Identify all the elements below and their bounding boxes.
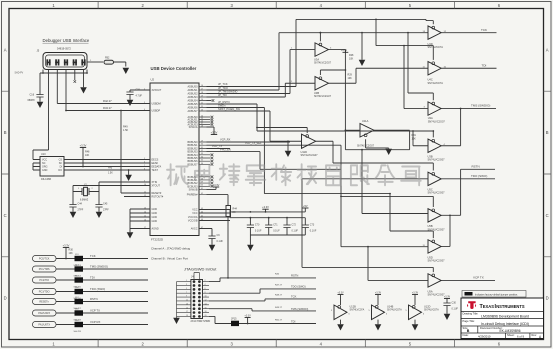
- op-amp U11D: [301, 134, 319, 157]
- wire ADBUS6 long: [207, 108, 391, 194]
- label RSTN: [472, 165, 480, 169]
- wire U5A in: [368, 247, 428, 281]
- wire J4 TCK: [209, 299, 316, 301]
- wire U5B in: [361, 149, 428, 214]
- ground U12D: [412, 324, 419, 331]
- wire RSTOUT#: [124, 196, 150, 198]
- label TCK: [90, 254, 96, 258]
- svg-text:32: 32: [201, 150, 203, 152]
- svg-text:LM3S9B96 Development Board: LM3S9B96 Development Board: [481, 315, 529, 319]
- svg-text:TDO (SWO): TDO (SWO): [90, 287, 105, 291]
- wire second run: [279, 32, 428, 34]
- label SHLD-PV: [15, 73, 24, 75]
- svg-text:0.1UF: 0.1UF: [292, 230, 299, 233]
- svg-text:16: 16: [205, 307, 207, 309]
- jumper J14: [74, 264, 84, 277]
- label TDI at J4: [275, 319, 296, 323]
- resistor R48 pullup: [83, 148, 90, 167]
- svg-text:41: 41: [201, 188, 203, 190]
- svg-text:8: 8: [205, 292, 206, 294]
- wire U4D enable: [426, 19, 433, 24]
- svg-text:13: 13: [186, 303, 188, 305]
- wire BDBUS2 stub: [207, 144, 231, 148]
- capacitor C44: [69, 203, 83, 212]
- section title USB Device Controller: [151, 66, 197, 71]
- svg-text:VCP TX: VCP TX: [473, 276, 484, 280]
- svg-text:1: 1: [186, 280, 187, 282]
- node PC0/TCK: [33, 256, 57, 262]
- svg-text:30: 30: [201, 144, 203, 146]
- svg-text:17: 17: [186, 311, 188, 313]
- svg-text:680PF: 680PF: [28, 99, 36, 102]
- svg-text:3V3OUT: 3V3OUT: [152, 89, 162, 92]
- svg-text:SN74LVC07A: SN74LVC07A: [350, 309, 365, 312]
- svg-text:27PF: 27PF: [103, 209, 109, 212]
- svg-text:10K: 10K: [69, 252, 74, 255]
- wire crystal right: [89, 182, 99, 205]
- IC U2 left pin stubs and labels: [143, 88, 164, 230]
- no-connect J5 pin4: [74, 70, 77, 83]
- svg-text:38: 38: [201, 178, 203, 180]
- IC U2 body: [150, 78, 199, 236]
- wire J5 shield: [40, 70, 88, 94]
- svg-text:VCC: VCC: [192, 212, 197, 215]
- svg-text:TMS (SWDIO): TMS (SWDIO): [471, 104, 490, 108]
- watermark text: [167, 164, 421, 185]
- svg-text:0.1UF: 0.1UF: [255, 230, 262, 233]
- svg-text:Channel B : Virtual Com Port: Channel B : Virtual Com Port: [151, 257, 188, 261]
- svg-text:VCP_RX: VCP_RX: [220, 138, 231, 142]
- jumper J16: [74, 287, 84, 300]
- svg-text:2X10 HDR SHRD: 2X10 HDR SHRD: [191, 320, 211, 323]
- svg-text:TMS (SWDIO): TMS (SWDIO): [291, 307, 308, 311]
- svg-text:18: 18: [205, 311, 207, 313]
- op-amp U3A mid: [314, 43, 332, 65]
- svg-text:SN74LVC2G07: SN74LVC2G07: [428, 120, 446, 123]
- svg-text:JP_RSTN: JP_RSTN: [218, 100, 230, 104]
- note Channel B: [151, 257, 188, 261]
- svg-text:+5V: +5V: [303, 204, 308, 208]
- svg-text:+3.3V: +3.3V: [63, 243, 70, 247]
- svg-text:SN74LVC2G07: SN74LVC2G07: [428, 159, 446, 162]
- jumper J18: [74, 308, 84, 321]
- wire TMS out: [441, 104, 496, 110]
- svg-text:RSTN: RSTN: [291, 274, 298, 278]
- svg-text:JP_TCK: JP_TCK: [218, 82, 228, 86]
- svg-text:10: 10: [205, 296, 207, 298]
- svg-text:+3.3V: +3.3V: [444, 295, 451, 298]
- label RSTN: [90, 297, 98, 301]
- resistor R28 pulldown: [349, 33, 362, 61]
- svg-text:B: B: [546, 130, 549, 135]
- wire U5B enable: [341, 196, 433, 207]
- no-connect ACBUS0-3: [207, 116, 214, 126]
- note Channel A: [151, 247, 191, 251]
- wire U12D tie: [414, 320, 416, 324]
- label JP RSTN: [218, 100, 230, 104]
- wire U3B out: [329, 68, 429, 83]
- svg-text:SN74LVC2G07: SN74LVC2G07: [314, 61, 332, 64]
- connector J4 2x10 header: [191, 276, 211, 323]
- resistor R43 label: [103, 106, 112, 110]
- svg-text:3: 3: [144, 102, 145, 104]
- wire USBDP junction: [65, 110, 67, 112]
- wire U10 to U2 TEST: [64, 168, 150, 175]
- svg-text:PC0/TCK: PC0/TCK: [39, 258, 50, 261]
- svg-text:A: A: [4, 47, 7, 52]
- svg-text:10K: 10K: [85, 154, 90, 157]
- svg-text:TEST: TEST: [152, 169, 159, 172]
- no-connect BDBUS4-7: [207, 154, 214, 166]
- wire XTIN: [99, 181, 150, 183]
- svg-text:Indicates factory-default jump: Indicates factory-default jumper positio…: [475, 293, 518, 296]
- op-amp U14B spare: [369, 305, 403, 320]
- svg-text:GND: GND: [152, 216, 158, 219]
- op-amp U5A: [428, 274, 446, 297]
- svg-text:JP15: JP15: [231, 318, 237, 321]
- svg-text:0.1UF: 0.1UF: [452, 308, 459, 311]
- jumper J19: [74, 320, 84, 333]
- wire J4 TDO: [209, 289, 316, 293]
- wire J4 top stubs: [194, 273, 199, 280]
- wire U3A enable: [320, 32, 322, 42]
- svg-text:TMS (SWDIO): TMS (SWDIO): [90, 265, 108, 269]
- svg-text:1.5K: 1.5K: [123, 129, 128, 132]
- power +3.3V R30: [63, 243, 70, 247]
- svg-text:+3.3V: +3.3V: [375, 291, 382, 294]
- svg-text:VCP_TX_SEL: VCP_TX_SEL: [245, 141, 262, 145]
- svg-text:R43 27: R43 27: [103, 106, 112, 110]
- label TMS (SWDIO): [90, 265, 108, 269]
- node PC2/TDI: [33, 277, 57, 283]
- wire RSTN out: [461, 169, 495, 215]
- power +3.3V SI/WUB: [213, 183, 220, 187]
- svg-text:U11A: U11A: [362, 119, 369, 123]
- node PC3/TDO: [33, 289, 57, 295]
- svg-text:PC3/TDO: PC3/TDO: [39, 291, 50, 294]
- wire U3A out: [329, 47, 346, 70]
- jumper J15: [74, 275, 84, 288]
- power +3.3V U14B: [375, 291, 382, 305]
- resistor R30 pullup: [65, 248, 73, 260]
- ground C15: [127, 99, 134, 106]
- svg-text:EXAS: EXAS: [483, 304, 494, 309]
- title block Texas Instruments: [461, 298, 544, 339]
- wire U5D in: [341, 246, 428, 248]
- svg-text:11: 11: [186, 300, 188, 302]
- svg-text:+3.3V: +3.3V: [412, 291, 419, 294]
- power +5V rail: [302, 204, 308, 212]
- IC U2 right pin stubs and labels: [187, 85, 207, 231]
- label TDI: [90, 276, 95, 280]
- svg-text:C: C: [4, 213, 7, 218]
- wire U11A out: [374, 129, 410, 131]
- wire AVCC: [199, 229, 212, 237]
- svg-text:JP_TDI: JP_TDI: [218, 93, 227, 97]
- svg-text:SN74LVC07A: SN74LVC07A: [428, 82, 444, 85]
- op-amp U12B spare: [331, 305, 365, 320]
- svg-text:AVCC: AVCC: [191, 228, 198, 231]
- svg-text:SRST_PU/EN_SW: SRST_PU/EN_SW: [218, 107, 240, 111]
- svg-text:5: 5: [186, 288, 187, 290]
- op-amp U4C: [423, 62, 447, 85]
- power +3.3V pullup R29: [341, 50, 348, 53]
- svg-text:TDI: TDI: [291, 319, 296, 323]
- ground C9: [209, 244, 216, 251]
- power +3.3V rail: [262, 205, 269, 212]
- power +3.3V C30: [444, 295, 451, 303]
- resistor R31: [410, 130, 417, 149]
- svg-text:SN74LVC2G07: SN74LVC2G07: [301, 154, 319, 157]
- wire U5A enable: [302, 267, 433, 272]
- wire PRG EN: [207, 147, 342, 169]
- svg-text:C73: C73: [310, 224, 315, 227]
- wire J4 TDI: [209, 316, 316, 324]
- wire U5D enable: [389, 193, 433, 238]
- svg-text:10K: 10K: [348, 77, 353, 80]
- svg-text:+3.3V: +3.3V: [244, 314, 251, 317]
- svg-text:31: 31: [201, 147, 203, 149]
- wire TDO (SWO) row: [56, 291, 148, 293]
- svg-text:SN74LVC2G07: SN74LVC2G07: [314, 95, 332, 98]
- wire FB2 to chassis: [114, 62, 126, 67]
- svg-text:39: 39: [201, 182, 203, 184]
- svg-text:Date:: Date:: [463, 333, 469, 337]
- svg-text:SN74LVC2G07: SN74LVC2G07: [428, 260, 446, 263]
- wire U11D in: [270, 140, 302, 142]
- svg-text:14: 14: [205, 303, 207, 305]
- wire 3V3OUT: [130, 90, 150, 92]
- power +3.3V R48: [80, 143, 87, 147]
- op-amp U4D: [423, 26, 447, 49]
- wire TCK row: [56, 258, 148, 260]
- wire USBDP from J5 pin3: [66, 70, 150, 111]
- svg-text:GND: GND: [42, 169, 48, 172]
- op-amp U5B: [428, 209, 446, 232]
- wire U14B tie: [377, 320, 379, 324]
- svg-text:In-circuit Debug Interface (IC: In-circuit Debug Interface (ICDI): [481, 322, 529, 326]
- resistor R42 label: [103, 99, 112, 103]
- svg-text:PA0/U0RX: PA0/U0RX: [38, 312, 50, 315]
- svg-text:U10: U10: [41, 153, 46, 156]
- svg-text:6.0MHZ: 6.0MHZ: [80, 200, 89, 202]
- svg-text:SN74LVC2G07: SN74LVC2G07: [428, 294, 446, 297]
- wire U3B enable: [320, 70, 345, 75]
- wire U5C in: [302, 179, 428, 268]
- svg-text:FB2: FB2: [105, 57, 110, 60]
- wire U5B out: [441, 214, 460, 216]
- svg-text:U2: U2: [151, 78, 155, 82]
- svg-text:10K: 10K: [349, 58, 354, 61]
- svg-text:XTOUT: XTOUT: [152, 185, 161, 188]
- note default jumper: [462, 291, 526, 298]
- wire U11A enable: [366, 139, 389, 148]
- resistor R29: [345, 69, 353, 150]
- svg-text:VCP RX: VCP RX: [90, 320, 100, 324]
- svg-text:AGND: AGND: [152, 228, 159, 231]
- svg-text:Channel A : JTAG/SWD debug: Channel A : JTAG/SWD debug: [151, 247, 191, 251]
- svg-text:42: 42: [201, 193, 203, 195]
- no-connect ADBUS4: [207, 99, 215, 102]
- op-amp U5C: [428, 172, 446, 195]
- IC U10 EEPROM: [40, 153, 64, 181]
- label VCP RX: [90, 320, 100, 324]
- wire RESET#: [121, 192, 150, 194]
- capacitor C45: [95, 203, 109, 212]
- ground C16: [37, 100, 44, 109]
- label SWDn: [218, 103, 226, 107]
- svg-text:19: 19: [201, 95, 203, 97]
- svg-text:12: 12: [205, 300, 207, 302]
- ground C44: [70, 211, 77, 218]
- svg-text:ADBUS7: ADBUS7: [187, 110, 198, 113]
- svg-text:+3.3V: +3.3V: [341, 50, 348, 52]
- svg-text:TDI: TDI: [482, 64, 487, 68]
- wire SI/WUB power: [207, 187, 217, 189]
- wire U3A right enable: [408, 33, 433, 101]
- wire cap ground rail: [250, 235, 305, 244]
- svg-text:USBDP: USBDP: [152, 110, 161, 113]
- svg-text:+3.3V: +3.3V: [337, 291, 344, 294]
- wire USBDM from J5 pin2: [57, 70, 150, 104]
- no-connect BCBUS0-3: [207, 176, 214, 188]
- wire U11D enable: [257, 128, 307, 134]
- wire PWREN#: [207, 195, 229, 206]
- svg-text:GND: GND: [152, 208, 158, 211]
- node PA1/U0TX: [33, 322, 57, 328]
- svg-text:C72: C72: [292, 224, 297, 227]
- svg-text:33: 33: [201, 153, 203, 155]
- wire U3B right enable: [432, 130, 434, 137]
- svg-text:SWDn: SWDn: [218, 103, 226, 107]
- wire SI/WUA power: [207, 127, 215, 135]
- wire U3B right in: [412, 130, 428, 146]
- node PA0/U0RX: [33, 310, 57, 316]
- op-amp U3A right: [424, 102, 446, 124]
- label JP TCK: [218, 82, 228, 86]
- resistor R49: [120, 110, 128, 193]
- svg-text:TDO (SWO): TDO (SWO): [471, 174, 487, 178]
- node RESETn: [33, 299, 57, 305]
- svg-text:+3.3V: +3.3V: [213, 183, 220, 187]
- svg-text:C: C: [546, 213, 549, 218]
- svg-text:2: 2: [205, 280, 206, 282]
- wire J4 ground bus: [177, 282, 184, 319]
- svg-text:JTAG/SWD In/Out: JTAG/SWD In/Out: [184, 267, 217, 272]
- wire GND from J5 pin5: [83, 70, 85, 87]
- svg-text:RSTN: RSTN: [90, 297, 98, 301]
- op-amp U12D spare: [406, 305, 440, 320]
- label SRST: [218, 107, 240, 111]
- svg-text:TCK: TCK: [481, 28, 487, 32]
- svg-text:B: B: [467, 329, 470, 333]
- svg-text:R45: R45: [108, 168, 113, 170]
- capacitor C9: [208, 234, 223, 244]
- svg-text:TDI: TDI: [90, 276, 95, 280]
- wire U11D out: [316, 141, 352, 163]
- ground R28: [359, 53, 366, 67]
- IC U2 part number FT2232D: [151, 238, 163, 242]
- svg-text:D: D: [546, 296, 549, 301]
- wire VBUS from J5 pin1: [33, 70, 49, 160]
- svg-text:SN74LVC2G07: SN74LVC2G07: [428, 192, 446, 195]
- svg-text:R42 27: R42 27: [103, 99, 112, 103]
- svg-text:PC2/TDI: PC2/TDI: [39, 279, 49, 282]
- wire R44 down: [227, 217, 229, 278]
- wire U4C feed: [376, 19, 433, 45]
- wire ADBUS7 riser: [207, 111, 271, 141]
- svg-text:Drawing Title:: Drawing Title:: [463, 312, 479, 316]
- label TCK at J4: [275, 295, 297, 299]
- svg-text:16: 16: [201, 85, 203, 87]
- svg-text:C16: C16: [30, 94, 35, 97]
- wire TDI row: [56, 279, 148, 281]
- svg-text:BDBUS7: BDBUS7: [187, 163, 198, 166]
- svg-text:R48 27: R48 27: [275, 295, 283, 297]
- wire ADBUS0 riser: [207, 19, 297, 86]
- wire mid long run: [257, 130, 433, 132]
- ground C45: [96, 211, 103, 218]
- ground U11A enable: [385, 148, 392, 155]
- svg-text:28: 28: [201, 125, 203, 127]
- label TDO at J4: [275, 285, 306, 289]
- wire VCC rail2: [230, 217, 305, 225]
- capacitor C30: [443, 302, 458, 314]
- svg-text:20: 20: [205, 315, 207, 317]
- connector J5 mini-USB Debugger: [37, 47, 88, 70]
- svg-text:TCK: TCK: [90, 254, 96, 258]
- capacitor C15: [126, 89, 142, 100]
- svg-text:VCCIOB: VCCIOB: [188, 220, 198, 223]
- wire U3A in: [290, 47, 315, 49]
- svg-text:+3.3V: +3.3V: [262, 205, 269, 209]
- wire ADBUS3 riser: [207, 83, 286, 97]
- wire J4 right stubs: [203, 280, 210, 317]
- svg-text:Rev:: Rev:: [532, 333, 538, 337]
- svg-text:JP_TDO: JP_TDO: [218, 86, 228, 90]
- wire VCP RX row: [56, 324, 148, 326]
- op-amp U11A: [357, 119, 375, 148]
- svg-text:PC1/TMS: PC1/TMS: [39, 268, 50, 271]
- label RSTN at J4: [275, 274, 298, 278]
- svg-text:VCP TX: VCP TX: [90, 309, 100, 313]
- svg-text:R50 27: R50 27: [275, 319, 283, 321]
- wire U11A in: [345, 129, 360, 131]
- svg-text:35: 35: [201, 160, 203, 162]
- label VCP TX: [90, 309, 100, 313]
- wire VCC rail1: [230, 211, 305, 213]
- svg-text:C30: C30: [452, 302, 457, 305]
- wire VCP TX row: [56, 312, 148, 314]
- svg-text:C71: C71: [273, 224, 278, 227]
- ground U14B: [375, 324, 382, 331]
- svg-text:4/29/2010: 4/29/2010: [478, 335, 491, 339]
- resistor R44: [226, 206, 238, 217]
- svg-text:SHD-PV: SHD-PV: [15, 73, 24, 75]
- svg-text:TDO (SWO): TDO (SWO): [291, 285, 306, 289]
- wire VCP RX: [207, 138, 291, 142]
- svg-text:PRG_EN: PRG_EN: [220, 147, 231, 151]
- ground U12B: [337, 324, 344, 331]
- svg-text:54819-0572: 54819-0572: [57, 47, 71, 51]
- wire U10 left stubs: [33, 160, 40, 171]
- svg-text:SI/WUA: SI/WUA: [189, 126, 198, 129]
- wire TMS (SWDIO) row: [56, 268, 148, 270]
- svg-text:0.1UF: 0.1UF: [217, 240, 224, 243]
- svg-text:1.5K: 1.5K: [108, 173, 113, 175]
- svg-text:10K: 10K: [412, 137, 417, 140]
- wire U3B right out: [441, 109, 460, 146]
